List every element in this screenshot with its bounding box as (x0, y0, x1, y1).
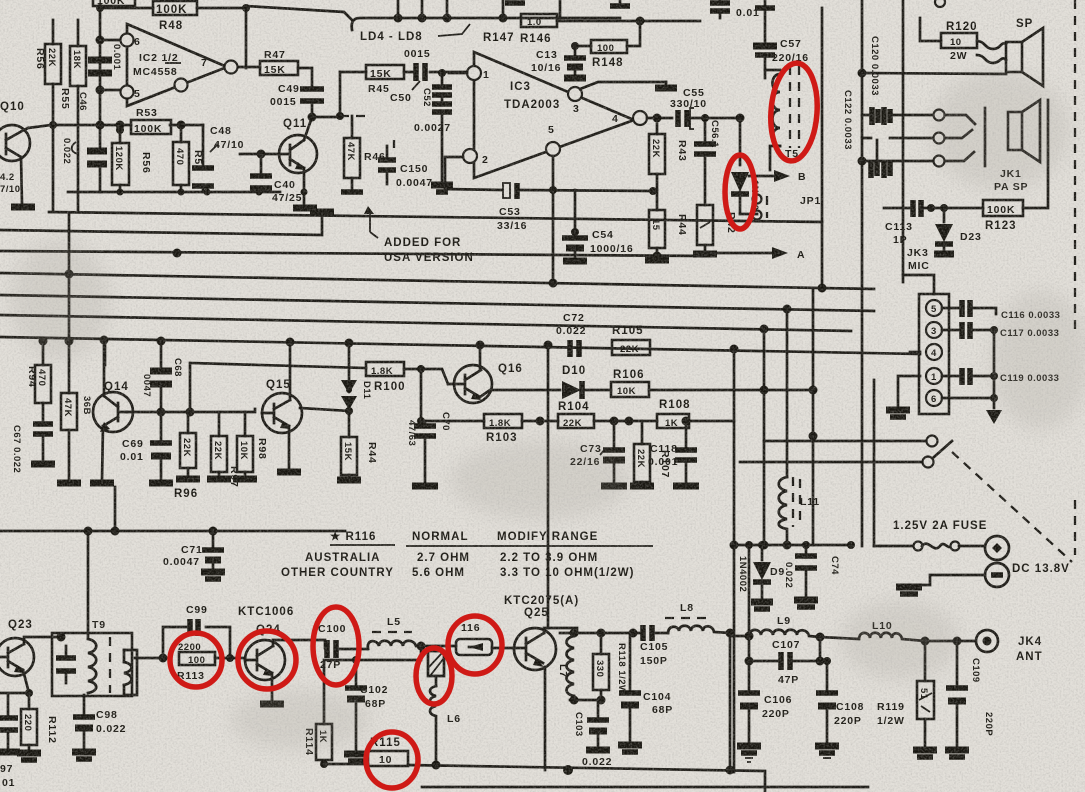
table row other-country (281, 567, 634, 579)
capacitor C102 68P (344, 656, 388, 761)
scan smudges (0, 0, 1, 1)
resistor R148 (571, 21, 640, 69)
pin 3 (926, 322, 942, 338)
resistor R48 (153, 1, 197, 32)
resistor R115 10 (368, 737, 408, 766)
resistor R95 47K (57, 341, 92, 483)
capacitor C52 0.0027 (414, 73, 453, 192)
wire jack row1 (862, 114, 933, 117)
ferrite bead 116 (456, 622, 513, 655)
label IC3 (482, 69, 619, 166)
capacitor C57 220/16 (753, 0, 809, 70)
capacitor C116 (942, 300, 1060, 321)
red circle L6 (416, 648, 452, 704)
red circle T5 (768, 62, 821, 163)
label JK3 MIC (907, 247, 930, 272)
resistor R119 (834, 637, 937, 758)
wire x749 riser (745, 541, 753, 636)
capacitor C106 220P (737, 661, 792, 762)
red circle Q24 (238, 631, 296, 689)
wire bus B3 (0, 295, 874, 314)
diode D11 pair (341, 343, 372, 437)
capacitor C67 0.022 (11, 424, 55, 473)
wire vertical x764 (760, 329, 769, 550)
wire riser x115 (114, 487, 117, 531)
transformer T9 (52, 619, 132, 696)
wire bus B4 (0, 315, 851, 334)
transistor Q25 KTC2075 (504, 595, 579, 670)
wire vertical x813 (809, 289, 818, 545)
switch PA contacts (740, 436, 952, 468)
capacitor C113 1P (885, 200, 983, 246)
wire lower border line (422, 786, 868, 789)
resistor R105 22K (612, 325, 650, 355)
wire Q15 output right (300, 407, 353, 415)
resistor R43 22K (649, 124, 688, 190)
capacitor C71 0.0047 (163, 531, 225, 579)
resistor R104 22K (558, 401, 657, 429)
jack JK4 ANT (925, 630, 1043, 663)
resistor R123 100K (983, 100, 1048, 232)
wire bus B2 (0, 270, 874, 293)
long vertical line3 (874, 0, 903, 546)
resistor R47 15K (260, 49, 298, 76)
wire supply riser x548 (544, 341, 553, 629)
resistor R46 4.7K (341, 138, 386, 192)
wire L7 R118 bottom node (570, 696, 606, 705)
resistor R118 330 (593, 633, 627, 700)
diode D9 1N4002 (737, 541, 785, 609)
capacitor C70 47/63 (406, 412, 451, 486)
scan noise overlay (0, 0, 1, 1)
wire bus B1 arrow A (0, 249, 705, 261)
wire jack row3 (862, 160, 933, 163)
wire node row R53 (49, 121, 203, 143)
wire bus y213 (49, 212, 822, 222)
table R116 heading (330, 530, 653, 546)
transistor Q15 (262, 379, 302, 472)
capacitor C98 0.022 (72, 695, 126, 759)
wire Q24 emitter ground (260, 700, 284, 704)
ground mic left (886, 376, 920, 417)
capacitor C100 27P (285, 623, 360, 671)
capacitor C68 0.0047 (141, 341, 183, 412)
connector JK3 MIC box (903, 275, 949, 414)
table row australia (305, 552, 598, 564)
red circle bead 116 (448, 616, 502, 674)
capacitor C13 10/16 (531, 46, 586, 78)
capacitor C99 bypass (163, 604, 230, 658)
wire to R100 (190, 363, 366, 412)
capacitor C69 0.01 (120, 412, 173, 483)
pin 4 (926, 344, 942, 360)
pin 6 (926, 390, 942, 406)
wire T9 feed x88 (87, 531, 90, 638)
capacitor C105 150P (640, 625, 668, 667)
resistor R99 15K (337, 437, 378, 480)
wire pin5 down (552, 156, 555, 286)
arrow A (705, 247, 805, 261)
wire R46 dashed branch (336, 72, 368, 138)
resistor R42 (693, 205, 737, 254)
wire jack row2 (862, 138, 933, 160)
capacitor C72 0.022 (556, 312, 586, 357)
wire pin2 feedback (445, 157, 657, 195)
jumper JP1 (753, 195, 822, 220)
resistor R106 10K (611, 369, 818, 397)
capacitor C46 0.001 (77, 44, 122, 111)
wire bus B5 (0, 336, 920, 355)
capacitor C74 0.022 (783, 541, 840, 607)
capacitor C54 1000/16 (562, 190, 634, 261)
resistor R107 22K (630, 421, 671, 486)
capacitor C104 68P (618, 633, 673, 752)
wire Q25 collector node (560, 629, 643, 638)
capacitor C118 0.001 (648, 421, 699, 486)
capacitor C109 220P (945, 637, 994, 758)
wire top feedback (100, 8, 246, 148)
fuse row (880, 520, 1009, 560)
op-amp U-IC3 TDA2003 (463, 52, 647, 178)
wire T9 out to R113 (124, 650, 168, 695)
wire LD rail (246, 0, 620, 30)
transistor Q10 (0, 101, 51, 207)
wire left long vertical x72 (68, 213, 71, 341)
inductor L11 (779, 477, 820, 550)
resistor R114 1K (303, 646, 421, 768)
transistor Q23 (0, 619, 66, 697)
capacitor C56.1 (694, 114, 720, 205)
wire left vertical x105 (104, 339, 107, 365)
long vertical C122 line (822, 8, 853, 290)
resistor R94 (26, 341, 51, 420)
wire vertical x421 (417, 369, 425, 425)
red circle diode 1N4002 (725, 155, 755, 229)
wire row y545 (734, 541, 855, 549)
inductor L5 (360, 616, 456, 651)
speaker SP (977, 18, 1043, 86)
label IC2 (133, 36, 208, 100)
wire Q16 collector riser (479, 345, 482, 370)
red circle C100 (313, 607, 359, 685)
capacitor C108 220P (815, 657, 839, 758)
resistor R108 1K (657, 399, 734, 429)
label added-for-usa (364, 206, 474, 264)
wire x874 to fuse (874, 545, 880, 548)
wire pin6 ground (942, 394, 1002, 424)
wire B branch (740, 213, 757, 216)
red circle R113 (170, 633, 222, 687)
capacitor C50 (390, 48, 431, 104)
wire R123 row (884, 207, 909, 210)
capacitor C119 (942, 330, 1059, 398)
capacitor C47 0.022 (61, 138, 107, 192)
pin 5 (926, 300, 942, 316)
capacitor C73 22/16 (570, 421, 627, 486)
resistor R45 15K (340, 65, 467, 95)
resistor R53 100K (131, 107, 171, 135)
diode D24 1N4002 (731, 172, 760, 216)
wire bottom rail IC2 section (68, 189, 317, 209)
capacitor C48 47/10 (192, 125, 244, 192)
resistor R44 15 (645, 190, 688, 260)
transformer T5 (765, 66, 799, 170)
capacitor top edge stubs (505, 0, 630, 6)
capacitor C103 0.022 (573, 700, 612, 768)
capacitor C40 47/25 (250, 154, 302, 204)
resistor R97 22K (207, 412, 240, 488)
capacitor Q23 base bypass (0, 693, 29, 789)
label LD4-LD8 (360, 24, 470, 43)
resistor R96 22K (174, 412, 200, 500)
resistor R100 1.8K (366, 362, 425, 393)
diode D23 (934, 208, 982, 254)
transistor Q24 KTC1006 (238, 606, 294, 700)
inductor L6 slug (428, 646, 461, 765)
capacitor 0.01 top (710, 0, 760, 19)
jack PA flare (1008, 100, 1040, 162)
red circle R115 (366, 732, 418, 788)
inductor L10 (820, 620, 925, 641)
transistor Q16 (448, 363, 523, 403)
wire Q14 base row (127, 408, 255, 417)
wire Q15 collector riser (289, 342, 292, 400)
wire Q11 base node (240, 150, 266, 159)
resistor R52 470 (173, 142, 204, 192)
long vertical line2 (858, 0, 1007, 546)
wire output pin4 (647, 114, 672, 123)
resistor partial 100K top edge (93, 0, 135, 7)
resistor R113 100 (177, 652, 245, 682)
resistor R146 (483, 14, 700, 45)
resistor R112 (17, 693, 58, 760)
capacitor C107 47P (745, 636, 825, 686)
op-amp U-IC2 (121, 24, 238, 106)
wire feed line y531 (0, 527, 345, 536)
capacitor C150 0.0047 (378, 140, 433, 189)
dashed page border (952, 0, 1075, 562)
resistor R98 10K (233, 412, 268, 479)
capacitor C121 pair (871, 107, 890, 178)
wire bottom frame (324, 629, 765, 792)
inductor L9 (730, 615, 825, 642)
wire output to diode (739, 118, 742, 165)
wire bus y231 (0, 212, 334, 235)
resistor R103 1.8K (484, 414, 558, 444)
wire Q16 emitter row (480, 390, 560, 397)
pin 1 (926, 368, 942, 384)
transistor Q14 (90, 340, 133, 483)
resistor R56 22K (34, 20, 61, 211)
wire R103 row (421, 420, 484, 423)
wire pin3 bias (580, 82, 677, 89)
transistor Q11 (261, 118, 317, 205)
diode D10 (562, 365, 611, 399)
capacitor C53 33/16 (497, 183, 527, 232)
capacitor C117 (942, 322, 1059, 339)
jack JK1 contacts (934, 108, 1029, 193)
resistor R120 (920, 18, 978, 62)
resistor R55 18K (59, 20, 86, 212)
wire mic row4 (910, 351, 920, 354)
wire vertical x734 (730, 349, 739, 772)
node dots top (96, 4, 251, 95)
inductor L8 (665, 602, 730, 633)
arrow B (749, 170, 806, 183)
capacitor C55 330/10 (670, 87, 745, 129)
capacitor C49 0015 (270, 68, 341, 122)
wire opamp out (238, 66, 260, 69)
resistor R54 120K (112, 126, 152, 192)
terminal minus (896, 563, 1070, 594)
wire vertical x787 (786, 309, 789, 477)
wire pin1 input (438, 69, 467, 77)
inductor L7 (557, 633, 574, 700)
wire Q16 base bend (421, 369, 448, 384)
